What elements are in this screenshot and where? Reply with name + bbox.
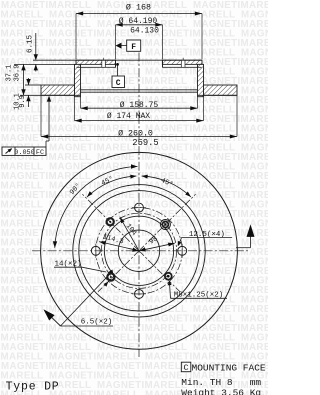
svg-text:64.130: 64.130 (130, 27, 159, 36)
center bore circle (118, 230, 159, 271)
svg-text:Weight 3.56 Kg: Weight 3.56 Kg (181, 387, 261, 395)
mounting face note with boxed C (181, 362, 191, 372)
radial dimension 104 PCD (120, 217, 139, 251)
section view direction arrow right (236, 247, 251, 249)
bolt circle O98/104 dash-dot (101, 213, 176, 288)
diagonal centerlines 45deg (139, 194, 196, 251)
svg-text:0.050: 0.050 (14, 149, 34, 157)
centerline vertical (both views) (138, 53, 140, 358)
hole 6.5 lower left (107, 273, 114, 280)
threaded hole M8 lower right (165, 273, 172, 280)
hatch: hat wall left section (75, 64, 81, 96)
hub circle (104, 216, 173, 285)
section view direction arrow lower left (49, 314, 61, 326)
band inner circle O158.75 (79, 191, 199, 311)
centerline horizontal front view (32, 250, 248, 252)
svg-text:Min. TH 8 mm: Min. TH 8 mm (181, 377, 261, 388)
hatch: hat wall right section (198, 64, 204, 96)
bolt hole left (91, 246, 100, 255)
wire: hat plate top surface + 6.15 extension line (33, 59, 202, 61)
svg-text:FC: FC (36, 149, 44, 157)
svg-text:9.9: 9.9 (19, 95, 27, 108)
svg-text:Ø 174 MAX: Ø 174 MAX (107, 112, 150, 121)
datum C box with leader (117, 64, 119, 76)
svg-text:C: C (116, 79, 121, 88)
svg-text:6.5(×2): 6.5(×2) (81, 319, 113, 327)
bolt hole top (135, 203, 144, 212)
svg-text:F: F (131, 43, 136, 52)
angle dimension 90deg arc (55, 167, 138, 248)
hatch: hat plate left section (76, 60, 116, 64)
bolt hole bottom (135, 289, 144, 298)
bolt hole right (178, 246, 187, 255)
threaded hole M8 upper right (160, 220, 170, 230)
hatch: mounting pad ring right (163, 64, 198, 67)
wire: bore edge verticals in section (115, 60, 117, 67)
svg-text:Ø 260.0: Ø 260.0 (118, 129, 153, 139)
svg-text:Ø 168: Ø 168 (126, 3, 151, 13)
hatch: braking band right section (204, 85, 238, 95)
runout tolerance frame 0.050 FC (2, 147, 46, 155)
bolt circle O114.3 dash-dot (96, 208, 182, 294)
svg-text:MOUNTING FACE: MOUNTING FACE (192, 363, 266, 374)
angle dimension 45deg right arc (142, 176, 191, 197)
wire: pad bottom stubs (77, 66, 81, 68)
radial dimension 114.3 PCD (99, 242, 139, 251)
svg-text:Type DP: Type DP (6, 380, 60, 393)
svg-text:36.9: 36.9 (13, 65, 21, 82)
datum F box with leader (127, 40, 141, 51)
hatch: braking band left section (41, 85, 75, 95)
radial dimension 98 PCD (139, 243, 175, 251)
angle dimension 45deg left arc (87, 176, 136, 197)
svg-text:C: C (183, 363, 188, 373)
leader from tolerance frame to braking surface (45, 141, 47, 147)
svg-text:259.5: 259.5 (132, 138, 158, 148)
wire: band top extension left (25, 84, 41, 86)
wire: mounting face line + left extension (14, 63, 76, 65)
hole 6.5 upper left (107, 218, 114, 225)
svg-text:12.5(×4): 12.5(×4) (189, 231, 225, 239)
wire: inner far-side edge lines (seen through center opening) (81, 89, 198, 91)
bolt hole cross ticks (132, 207, 146, 209)
bolt hole slots cut through hat plate in section (102, 61, 106, 67)
band inner circle O174 (73, 185, 205, 317)
hatch: hat plate right section (163, 60, 203, 64)
hatch: mounting pad ring left (81, 64, 116, 67)
wire: band bottom line + extension left (20, 94, 81, 96)
outer circle O260 front view (41, 152, 238, 349)
svg-text:6.15: 6.15 (26, 35, 34, 54)
